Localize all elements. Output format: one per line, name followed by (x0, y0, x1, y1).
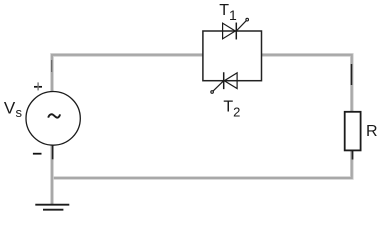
wire: anti-parallel loop rectangle (203, 31, 262, 81)
ac voltage source Vs (26, 92, 80, 146)
wire: resistor bottom to bottom rail back to source (52, 150, 353, 178)
thyristor T1 (223, 18, 249, 39)
svg-text:1: 1 (229, 7, 237, 23)
wire: source top to thyristor block (node A) (52, 55, 203, 92)
wire: block right to resistor top (node B) (262, 55, 352, 112)
thyristor T2 (211, 72, 237, 93)
minus polarity mark (33, 153, 42, 155)
svg-text:T: T (219, 2, 229, 19)
ground (35, 205, 69, 210)
label T1 (219, 2, 237, 23)
svg-text:T: T (223, 99, 233, 116)
svg-text:s: s (16, 105, 23, 120)
resistor R (345, 112, 361, 151)
wire: ground stem (50, 178, 54, 204)
label T2 (223, 99, 240, 120)
plus polarity mark (34, 82, 42, 90)
svg-text:R: R (366, 123, 378, 140)
wire: source bottom lead to junction (50, 145, 54, 178)
svg-text:V: V (4, 99, 16, 118)
svg-text:2: 2 (233, 104, 240, 119)
label Vs (4, 99, 23, 121)
